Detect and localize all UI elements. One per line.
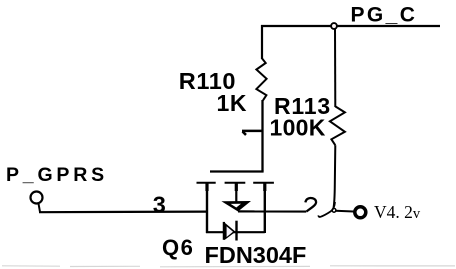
svg-text:P_GPRS: P_GPRS bbox=[6, 164, 108, 186]
svg-text:100K: 100K bbox=[270, 115, 326, 141]
node junction on PG_C rail bbox=[331, 23, 337, 29]
svg-text:3: 3 bbox=[153, 191, 166, 217]
wire R113 bottom lead curving to output node bbox=[334, 145, 336, 208]
resistor R110 bbox=[256, 58, 266, 100]
terminal V4.2v (bold ring) bbox=[355, 207, 366, 218]
scan noise bottom bbox=[2, 266, 455, 267]
transistor Q6 body contact stub bbox=[235, 183, 238, 203]
svg-text:Q6: Q6 bbox=[162, 235, 194, 260]
transistor Q6 source contact vertical bbox=[205, 183, 208, 234]
resistor R113 bbox=[330, 106, 345, 145]
transistor Q6 channel segment (source side) bbox=[197, 182, 216, 184]
pin number 2 (handwritten style) bbox=[305, 198, 316, 212]
transistor Q6 gate plate bbox=[210, 170, 264, 172]
pin number 1 (gate pin, rotated mark) bbox=[242, 131, 262, 135]
svg-text:PG_C: PG_C bbox=[351, 4, 418, 27]
terminal P_GPRS (open circle) bbox=[31, 192, 43, 204]
diode body diode of Q6 bbox=[224, 221, 237, 241]
transistor Q6 channel segment (body) bbox=[225, 182, 246, 184]
svg-text:1K: 1K bbox=[217, 90, 248, 116]
transistor Q6 body arrow (points down to drain wire) bbox=[221, 201, 251, 212]
wire squiggle loop at output node bbox=[318, 202, 335, 217]
wire R113 top lead from junction bbox=[334, 29, 336, 107]
wire Q6 drain to output (pin 2 net) bbox=[238, 210, 306, 212]
wire R110 bottom lead down to gate bbox=[261, 100, 263, 172]
wire terminal stub down from P_GPRS circle bbox=[39, 204, 41, 213]
wire R110 top lead from rail corner bbox=[261, 25, 263, 59]
wire bottom rail (source to body diode to drain) bbox=[206, 231, 265, 233]
wire output node to V4.2v terminal bbox=[336, 210, 354, 213]
wire top rail to PG_C bbox=[261, 25, 440, 27]
wire P_GPRS to Q6 source (pin 3 net) bbox=[39, 211, 207, 214]
svg-text:FDN304F: FDN304F bbox=[205, 242, 307, 268]
transistor Q6 channel segment (drain side) bbox=[253, 182, 274, 184]
transistor Q6 drain contact vertical bbox=[263, 183, 266, 234]
